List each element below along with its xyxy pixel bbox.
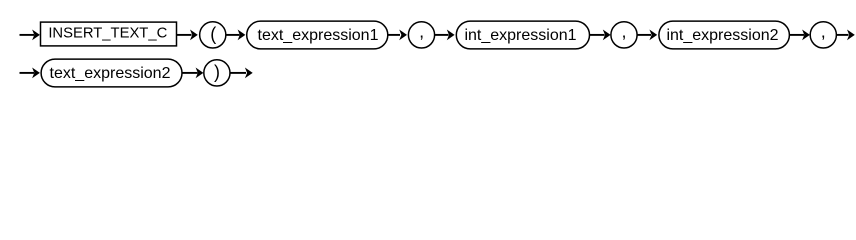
svg-text:): ): [214, 62, 220, 82]
svg-text:INSERT_TEXT_C: INSERT_TEXT_C: [48, 25, 167, 41]
svg-text:text_expression1: text_expression1: [258, 27, 379, 44]
svg-text:int_expression2: int_expression2: [666, 27, 778, 44]
svg-text:(: (: [210, 24, 216, 44]
svg-text:,: ,: [821, 22, 826, 42]
svg-text:text_expression2: text_expression2: [50, 65, 171, 82]
svg-text:,: ,: [621, 22, 626, 42]
svg-text:int_expression1: int_expression1: [464, 27, 576, 44]
svg-text:,: ,: [419, 22, 424, 42]
